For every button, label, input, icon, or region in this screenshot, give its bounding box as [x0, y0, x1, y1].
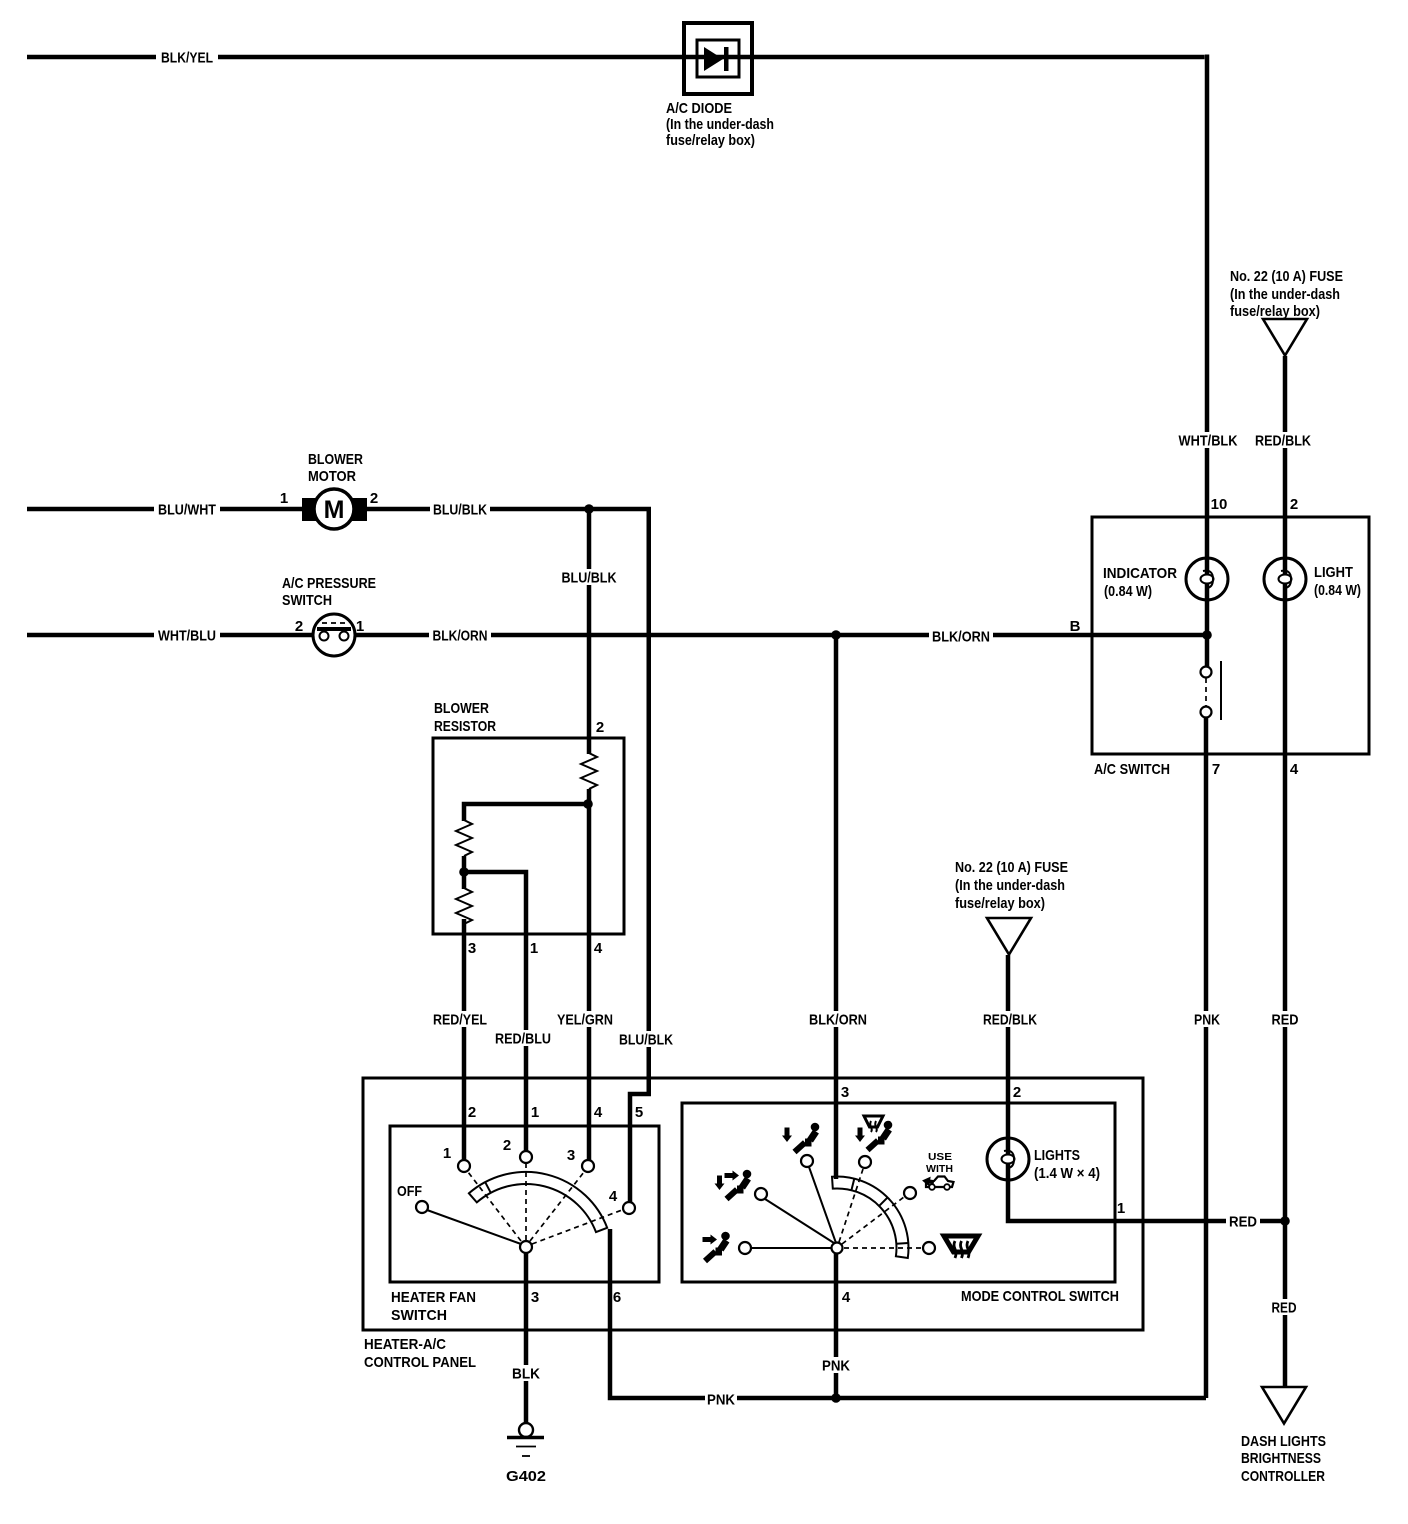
A/C switch box	[1092, 517, 1369, 754]
light bulb body	[1264, 558, 1306, 600]
svg-text:BLK/ORN: BLK/ORN	[932, 629, 990, 646]
svg-text:4: 4	[1290, 761, 1299, 778]
svg-text:PNK: PNK	[707, 1392, 735, 1409]
defrost icon	[944, 1236, 978, 1258]
svg-text:(1.4 W × 4): (1.4 W × 4)	[1034, 1165, 1100, 1182]
bi-level icon	[715, 1170, 752, 1199]
fan switch dashed line to contact 4	[532, 1210, 622, 1244]
heater fan switch rotary arc	[469, 1172, 607, 1232]
svg-text:BLK/ORN: BLK/ORN	[433, 628, 488, 645]
svg-text:CONTROLLER: CONTROLLER	[1241, 1468, 1325, 1485]
resistor internal wire: junction to resistor 2	[464, 804, 586, 821]
use-with car icon	[921, 1175, 953, 1189]
svg-text:RED/YEL: RED/YEL	[433, 1012, 487, 1029]
label PNK on pin7 wire	[1192, 1011, 1222, 1029]
svg-text:fuse/relay box): fuse/relay box)	[666, 132, 755, 149]
label BLU/WHT	[154, 501, 220, 519]
svg-text:1: 1	[443, 1145, 451, 1162]
svg-text:10: 10	[1211, 496, 1228, 513]
svg-text:CONTROL PANEL: CONTROL PANEL	[364, 1354, 476, 1371]
label WHT/BLU	[154, 627, 220, 645]
svg-text:BLK: BLK	[512, 1366, 540, 1383]
svg-text:WITH: WITH	[926, 1164, 953, 1175]
wire from fuse No.22 to A/C switch pin 2	[1283, 356, 1288, 517]
svg-text:3: 3	[841, 1084, 849, 1101]
fan switch common contact	[520, 1241, 532, 1253]
mode switch heat contact	[801, 1155, 813, 1167]
label WHT/BLK	[1177, 432, 1240, 450]
svg-text:USE: USE	[928, 1152, 952, 1163]
svg-text:DASH LIGHTS: DASH LIGHTS	[1241, 1433, 1326, 1450]
svg-text:2: 2	[295, 618, 303, 635]
svg-text:(0.84 W): (0.84 W)	[1104, 583, 1152, 600]
label BLK	[510, 1365, 542, 1383]
wire RED from A/C switch pin 4 through light down to dash lights controller	[1283, 517, 1288, 1387]
A/C diode assembly	[684, 23, 752, 94]
mode switch dashed line to defrost contact	[844, 1247, 922, 1249]
fan switch contact 4	[623, 1202, 635, 1214]
fan switch wiper OFF line	[427, 1210, 521, 1244]
wire BLU/BLK branch to blower resistor pin 2 / pin 4 drop to fan contact 3	[587, 509, 592, 1161]
svg-text:3: 3	[468, 940, 476, 957]
svg-text:BLOWER: BLOWER	[308, 451, 363, 468]
svg-text:YEL/GRN: YEL/GRN	[557, 1012, 613, 1029]
svg-text:RED: RED	[1272, 1012, 1299, 1029]
svg-text:RED: RED	[1272, 1300, 1297, 1317]
wire BLK/ORN from pressure switch to A/C switch junction	[355, 633, 1207, 638]
fan switch dashed line to contact 1	[468, 1172, 521, 1241]
wire BLK from fan common to ground G402	[524, 1253, 529, 1424]
fan switch dashed line to contact 2	[525, 1164, 527, 1240]
svg-text:RED/BLK: RED/BLK	[1255, 433, 1311, 450]
svg-text:BLK/ORN: BLK/ORN	[809, 1012, 867, 1029]
svg-text:RED/BLK: RED/BLK	[983, 1012, 1037, 1029]
svg-text:1: 1	[1117, 1200, 1125, 1217]
svg-text:A/C DIODE: A/C DIODE	[666, 100, 732, 117]
svg-text:No. 22 (10 A) FUSE: No. 22 (10 A) FUSE	[1230, 268, 1343, 285]
junction dot BLK/ORN at mode drop	[831, 630, 841, 640]
label RED/BLK fuse	[1254, 432, 1314, 450]
svg-text:BRIGHTNESS: BRIGHTNESS	[1241, 1450, 1321, 1467]
label BLK/ORN right	[929, 628, 993, 646]
mode switch vent contact	[739, 1242, 751, 1254]
fan switch contact 3	[582, 1160, 594, 1172]
label BLK/YEL	[156, 49, 218, 67]
svg-text:2: 2	[468, 1104, 476, 1121]
svg-text:3: 3	[531, 1289, 539, 1306]
svg-text:4: 4	[609, 1188, 618, 1205]
svg-text:4: 4	[594, 1104, 603, 1121]
svg-text:SWITCH: SWITCH	[391, 1307, 447, 1324]
mode switch common contact	[832, 1243, 843, 1254]
svg-text:RESISTOR: RESISTOR	[434, 718, 496, 735]
svg-text:6: 6	[613, 1289, 621, 1306]
svg-text:OFF: OFF	[397, 1183, 422, 1200]
svg-text:HEATER-A/C: HEATER-A/C	[364, 1336, 446, 1353]
svg-text:2: 2	[1013, 1084, 1021, 1101]
svg-text:PNK: PNK	[822, 1358, 850, 1375]
label BLU/BLK vertical	[559, 569, 619, 587]
svg-text:2: 2	[370, 490, 378, 507]
junction dot PNK	[831, 1393, 841, 1403]
mode switch heat-defrost contact	[859, 1156, 871, 1168]
svg-text:fuse/relay box): fuse/relay box)	[955, 895, 1045, 912]
fan switch contact 2	[520, 1151, 532, 1163]
resistor internal wire: junction to pin 1 drop to fan contact 2	[464, 872, 526, 1152]
svg-text:3: 3	[567, 1147, 575, 1164]
fuse No.22 triangle middle	[987, 918, 1031, 955]
A/C pressure switch	[313, 614, 355, 656]
wire PNK from mode switch pin 4 down	[834, 1253, 839, 1398]
svg-text:BLU/BLK: BLU/BLK	[562, 570, 617, 587]
indicator bulb body	[1186, 558, 1228, 600]
svg-text:(In the under-dash: (In the under-dash	[955, 877, 1065, 894]
svg-text:BLU/WHT: BLU/WHT	[158, 502, 216, 519]
label BLK/ORN left	[429, 627, 491, 645]
ground G402	[507, 1423, 544, 1456]
dash lights controller triangle	[1262, 1387, 1306, 1424]
resistor 2 zigzag	[456, 820, 472, 856]
svg-text:LIGHTS: LIGHTS	[1034, 1147, 1080, 1164]
svg-text:HEATER FAN: HEATER FAN	[391, 1289, 476, 1306]
heater-A/C control panel box	[363, 1078, 1143, 1330]
mode switch dashed line to use-with contact	[842, 1197, 904, 1244]
svg-text:fuse/relay box): fuse/relay box)	[1230, 303, 1320, 320]
svg-text:BLU/BLK: BLU/BLK	[619, 1032, 673, 1049]
svg-text:MOTOR: MOTOR	[308, 468, 356, 485]
resistor 1 zigzag	[581, 753, 597, 789]
junction dot resistor upper	[583, 799, 593, 809]
label PNK horizontal	[705, 1391, 737, 1409]
svg-text:BLOWER: BLOWER	[434, 700, 489, 717]
svg-text:2: 2	[596, 719, 604, 736]
label RED/BLK drop	[982, 1011, 1040, 1029]
svg-text:4: 4	[594, 940, 603, 957]
label BLU/BLK on motor wire	[430, 501, 490, 519]
wire BLU/BLK from motor with corner down to fan switch pin 5	[365, 509, 651, 1203]
fan switch dashed line to contact 3	[530, 1172, 584, 1241]
label YEL/GRN	[556, 1011, 616, 1029]
svg-text:A/C PRESSURE: A/C PRESSURE	[282, 575, 376, 592]
heat icon	[782, 1123, 819, 1152]
mode switch defrost contact	[923, 1242, 935, 1254]
wire WHT/BLU to pressure switch	[27, 633, 313, 638]
mode control switch rotary arc	[832, 1177, 908, 1258]
label RED on pin4 wire	[1270, 1011, 1301, 1029]
mode switch dashed line to heat-defrost contact	[839, 1169, 863, 1242]
svg-text:WHT/BLU: WHT/BLU	[158, 628, 216, 645]
svg-text:1: 1	[530, 940, 538, 957]
svg-text:MODE CONTROL SWITCH: MODE CONTROL SWITCH	[961, 1288, 1119, 1305]
svg-text:RED: RED	[1229, 1214, 1257, 1231]
svg-text:(In the under-dash: (In the under-dash	[666, 116, 774, 133]
svg-text:BLU/BLK: BLU/BLK	[433, 502, 487, 519]
label RED/BLU	[494, 1030, 554, 1048]
indicator bulb filament	[1201, 571, 1214, 588]
fan switch contact 1	[458, 1160, 470, 1172]
svg-text:2: 2	[1290, 496, 1298, 513]
svg-text:1: 1	[531, 1104, 539, 1121]
fan switch OFF contact	[416, 1201, 428, 1213]
svg-text:BLK/YEL: BLK/YEL	[161, 50, 213, 67]
svg-text:(0.84 W): (0.84 W)	[1314, 582, 1361, 599]
DASHED LINES	[468, 1164, 922, 1248]
junction dot BLU/BLK	[584, 504, 594, 514]
label RED/YEL	[431, 1011, 489, 1029]
resistor 3 zigzag	[456, 888, 472, 934]
lights bulb body	[987, 1138, 1029, 1180]
svg-text:RED/BLU: RED/BLU	[495, 1031, 551, 1048]
svg-text:B: B	[1070, 618, 1081, 635]
wire PNK horizontal from fan pin 6 to A/C pin 7 drop	[608, 1229, 1206, 1398]
A/C switch internal wire: pin 10 through indicator to switch	[1205, 517, 1210, 668]
svg-text:INDICATOR: INDICATOR	[1103, 565, 1177, 582]
fuse No.22 triangle top right	[1263, 319, 1307, 356]
label PNK on mode pin4 wire	[820, 1357, 852, 1375]
svg-text:A/C SWITCH: A/C SWITCH	[1094, 761, 1170, 778]
svg-text:1: 1	[280, 490, 288, 507]
light bulb filament	[1279, 571, 1292, 588]
svg-text:1: 1	[356, 618, 364, 635]
svg-text:7: 7	[1212, 761, 1220, 778]
wire PNK from A/C switch pin 7 down	[1204, 717, 1209, 1398]
svg-text:No. 22 (10 A) FUSE: No. 22 (10 A) FUSE	[955, 859, 1068, 876]
svg-text:(In the under-dash: (In the under-dash	[1230, 286, 1340, 303]
svg-text:LIGHT: LIGHT	[1314, 564, 1353, 581]
mode switch bi-level contact	[755, 1188, 767, 1200]
mode switch use-with contact	[904, 1187, 916, 1199]
blower resistor box	[433, 738, 624, 934]
label BLK/ORN drop	[808, 1011, 870, 1029]
heater fan switch box	[390, 1126, 659, 1282]
svg-text:G402: G402	[506, 1468, 546, 1485]
svg-text:4: 4	[842, 1289, 851, 1306]
svg-text:PNK: PNK	[1194, 1012, 1220, 1029]
A/C switch contact lower	[1201, 707, 1212, 718]
label BLU/BLK drop	[618, 1031, 676, 1049]
wire RED from mode lights pin 1 to RED junction	[1115, 1219, 1285, 1224]
wire BLK/ORN drop to mode control switch arc	[834, 635, 839, 1179]
label RED lower	[1270, 1299, 1299, 1317]
A/C switch internal dashed switch gap	[1205, 678, 1207, 707]
A/C switch contact upper	[1201, 667, 1212, 678]
heat-defrost icon	[855, 1116, 892, 1150]
blower motor	[302, 489, 367, 529]
svg-text:2: 2	[503, 1137, 511, 1154]
junction dot resistor lower	[459, 867, 469, 877]
junction dot RED	[1280, 1216, 1290, 1226]
wire RED/BLK from fuse No.22 to mode switch lights	[1008, 955, 1115, 1221]
svg-text:M: M	[324, 496, 345, 524]
junction dot BLK/ORN inside A/C switch	[1202, 630, 1212, 640]
mode switch wiper solid lines	[751, 1167, 836, 1248]
wire BLK/YEL top feed and WHT/BLK drop	[27, 55, 1207, 518]
svg-text:WHT/BLK: WHT/BLK	[1179, 433, 1238, 450]
resistor internal wire: resistor 2 to resistor 3, pin 3 drop to fan contact 1	[462, 856, 467, 1161]
wire BLU/WHT to blower motor	[27, 507, 303, 512]
switch bar	[1220, 661, 1222, 720]
lights bulb filament	[1002, 1151, 1015, 1168]
label RED horizontal	[1226, 1213, 1260, 1231]
mode control switch box	[682, 1103, 1115, 1282]
svg-text:5: 5	[635, 1104, 643, 1121]
vent-to-face icon	[703, 1232, 730, 1261]
svg-text:SWITCH: SWITCH	[282, 592, 332, 609]
